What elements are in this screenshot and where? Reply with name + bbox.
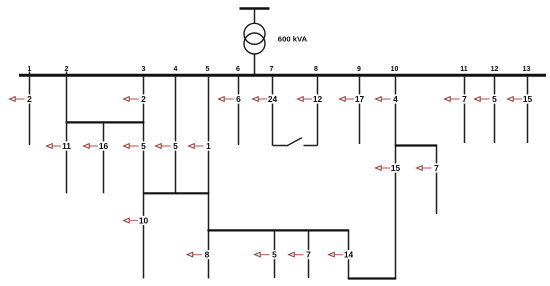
svg-text:4: 4 (174, 66, 178, 73)
node 6 label (236, 66, 240, 73)
node 1 label (28, 66, 32, 73)
wire feeder node 2 to bar1 (66, 72, 68, 123)
svg-text:1: 1 (206, 141, 211, 151)
load arrow 4 at node 10 (376, 94, 400, 104)
wire drop from bar2 left end (143, 193, 145, 278)
source bar (supply) (240, 7, 270, 10)
node 5 label (206, 66, 210, 73)
wire feeder node 8 (317, 77, 319, 146)
svg-text:5: 5 (492, 94, 497, 104)
svg-text:11: 11 (62, 141, 71, 151)
bar3 tie from node5 feeder (207, 229, 349, 231)
load arrow 7 on node 10 branch right (417, 163, 441, 173)
node 4 label (174, 66, 178, 73)
load arrow 11 at node 2 drop (47, 141, 72, 151)
svg-text:11: 11 (460, 66, 468, 73)
wire drop bar3 end to bar4 (348, 230, 350, 278)
svg-text:4: 4 (393, 94, 398, 104)
node 9 label (357, 66, 361, 73)
bar1 tie node2-node3 (66, 121, 145, 123)
wire feeder node 1 (29, 72, 31, 146)
node 7 label (270, 66, 274, 73)
wire feeder node 6 (238, 77, 240, 145)
svg-text:5: 5 (141, 141, 146, 151)
svg-text:15: 15 (523, 94, 533, 104)
node 8 label (314, 66, 318, 73)
wire feeder node 11 (464, 77, 466, 143)
wire feeder node 5 through bar2 and bar3 to open end (208, 77, 210, 279)
svg-text:17: 17 (355, 94, 365, 104)
load arrow 5 at node 4 (156, 141, 180, 151)
wire feeder node 3 through bar1 to bar2 (143, 77, 145, 194)
wire feeder node 4 to bar2 (175, 77, 177, 194)
load arrow 8 below bar3 at node5 line (187, 250, 211, 260)
load arrow 15 at node 13 (508, 94, 533, 104)
svg-text:7: 7 (462, 94, 467, 104)
node 11 label (460, 66, 468, 73)
load arrow 2 at node 1 (10, 94, 34, 104)
load arrow 24 at node 7 (253, 94, 278, 104)
load arrow 6 at node 6 (219, 94, 243, 104)
load arrow 2 at node 3 (124, 94, 148, 104)
load arrow 17 at node 9 (340, 94, 365, 104)
load arrow 5 at node 3 below bar1 (124, 141, 148, 151)
load arrow 15 on node 10 branch left (376, 163, 401, 173)
load arrow 5 at node 12 (475, 94, 499, 104)
load arrow 5 below bar3 (255, 250, 279, 260)
svg-text:15: 15 (391, 163, 401, 173)
load arrow 1 at node 5 (189, 141, 213, 151)
bar5 tie on node10 branch (395, 144, 437, 146)
load arrow 7 at node 11 (445, 94, 469, 104)
wire feeder node 7 (272, 77, 274, 146)
wire drop from bar3 at x308.5 (308, 230, 310, 278)
main LV bus (19, 74, 546, 77)
wire feeder node 9 (359, 77, 361, 144)
node 2 label (65, 66, 69, 73)
load arrow 16 at bar1 middle drop (84, 141, 109, 151)
transformer rating label 600 kVA (278, 35, 308, 44)
svg-text:7: 7 (270, 66, 274, 73)
svg-text:2: 2 (27, 94, 32, 104)
svg-text:13: 13 (523, 66, 531, 73)
svg-text:10: 10 (391, 66, 399, 73)
node 10 label (391, 66, 399, 73)
wire drop from bar5 right end (436, 146, 438, 215)
wire drop node 2 below bar1 (66, 122, 68, 193)
svg-text:6: 6 (236, 94, 241, 104)
svg-text:7: 7 (434, 163, 439, 173)
bar2 tie node3-node5 (143, 192, 209, 194)
svg-text:9: 9 (357, 66, 361, 73)
node 12 label (491, 66, 499, 73)
load arrow 10 on bar2 left drop (124, 216, 149, 226)
load arrow 7 below bar3 (289, 250, 313, 260)
svg-text:600 kVA: 600 kVA (278, 35, 308, 44)
svg-text:12: 12 (313, 94, 323, 104)
svg-text:5: 5 (272, 250, 277, 260)
svg-text:5: 5 (173, 141, 178, 151)
svg-text:3: 3 (142, 66, 146, 73)
wire drop from bar3 at x274.5 (274, 230, 276, 278)
svg-text:24: 24 (268, 94, 278, 104)
wire feeder node 12 (494, 77, 496, 143)
wire feeder node 13 (527, 77, 529, 143)
svg-text:5: 5 (206, 66, 210, 73)
load arrow 12 at node 8 (298, 94, 323, 104)
wire source to transformer (254, 9, 256, 25)
svg-text:8: 8 (205, 250, 210, 260)
svg-text:8: 8 (314, 66, 318, 73)
bar4 tie to node10 feeder (348, 277, 396, 279)
svg-text:6: 6 (236, 66, 240, 73)
open switch between node 7 and node 8 feeders (273, 138, 318, 146)
wire drop from bar1 middle (103, 122, 105, 193)
load arrow 14 on bar3-bar4 drop (329, 250, 354, 260)
svg-text:14: 14 (344, 250, 354, 260)
svg-text:12: 12 (491, 66, 499, 73)
wire feeder node 10 through bar5 to bar4 (395, 77, 397, 279)
svg-text:7: 7 (306, 250, 311, 260)
svg-text:2: 2 (141, 94, 146, 104)
node 3 label (142, 66, 146, 73)
transformer T1 600 kVA (244, 23, 265, 54)
svg-text:10: 10 (139, 216, 149, 226)
svg-text:16: 16 (99, 141, 109, 151)
wire transformer to bus (254, 54, 256, 75)
node 13 label (523, 66, 531, 73)
